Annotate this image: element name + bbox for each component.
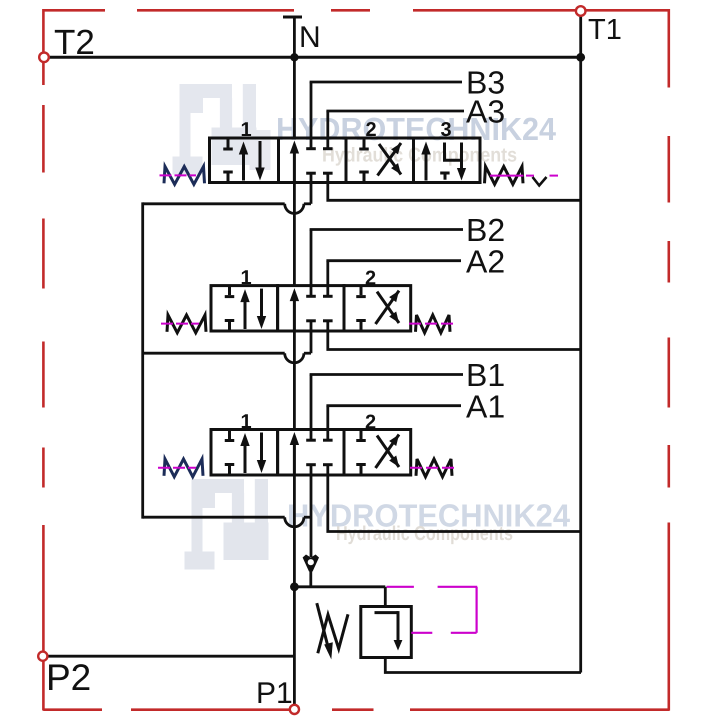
port T2: [39, 53, 49, 63]
valve V2 body (3 boxes): [211, 286, 411, 331]
svg-text:N: N: [299, 21, 321, 54]
valve V1 neutral box through-arrow: [290, 432, 299, 477]
label A1: [466, 388, 505, 424]
watermark text upper: [276, 111, 556, 147]
svg-text:2: 2: [366, 119, 377, 141]
svg-text:P2: P2: [46, 657, 91, 698]
valve V2 position label 2: [365, 267, 376, 289]
valve V1 position label 2: [365, 412, 376, 434]
valve V3 neutral box through-arrow: [290, 141, 299, 185]
svg-text:P1: P1: [256, 677, 293, 710]
svg-text:1: 1: [241, 411, 252, 433]
wire neutral line V2 to V1: [293, 331, 296, 431]
valve V2 right spring: [416, 315, 451, 333]
check valve: [303, 555, 319, 589]
relief valve pilot line (magenta dashed): [387, 587, 478, 633]
wire V1 carryover down: [310, 465, 313, 558]
wire V2 bypass to left rail (with hop): [143, 321, 311, 363]
svg-text:2: 2: [365, 267, 376, 289]
label T1: [588, 14, 622, 46]
wire V3 tank return to trunk: [328, 172, 581, 200]
svg-text:Hydraulic Components: Hydraulic Components: [322, 145, 517, 167]
wire top rail T2-N-T1: [47, 56, 581, 59]
valve V3 box3 internals: [359, 139, 401, 182]
svg-text:HYDROTECHNIK24: HYDROTECHNIK24: [276, 111, 556, 147]
valve V3 right spring: [485, 167, 524, 185]
valve V3 box4 internals: [421, 142, 466, 181]
valve V3 position label 3: [441, 119, 452, 141]
valve V1 left spring: [164, 459, 203, 477]
wire port B2: [310, 230, 463, 296]
valve V3 left spring pilot line: [160, 174, 197, 176]
wire V3 bypass to left rail (with hop): [143, 172, 311, 213]
port P2: [38, 652, 47, 661]
label B1: [466, 357, 505, 393]
valve V3 left spring: [164, 167, 205, 185]
valve V2 right spring pilot line: [409, 323, 457, 325]
valve V3 right pilot line (dashed): [490, 175, 558, 177]
wire V1 tank return to trunk: [328, 465, 581, 532]
valve V1 box3 internals: [356, 431, 399, 475]
svg-text:1: 1: [241, 267, 252, 289]
watermark subtext lower: [336, 523, 513, 545]
node T1 junction: [576, 53, 585, 62]
valve V2 left spring pilot line: [161, 323, 199, 325]
valve V1 box1 internals: [225, 431, 266, 475]
svg-text:1: 1: [241, 119, 252, 141]
port T1: [576, 6, 586, 16]
relief valve outlet to trunk: [385, 658, 581, 673]
valve V2 left spring: [167, 315, 206, 333]
wire P1 riser: [293, 587, 296, 708]
wire neutral line V1 to node P: [293, 475, 296, 588]
label P2: [46, 657, 91, 698]
watermark logo lower: [185, 479, 269, 570]
svg-text:T1: T1: [588, 14, 622, 46]
valve V1 right spring pilot line: [410, 467, 457, 469]
valve V3 body (4 boxes): [210, 138, 481, 183]
relief valve spring and adjust arrow: [317, 603, 348, 659]
node N junction: [290, 53, 298, 61]
svg-text:3: 3: [441, 119, 452, 141]
valve V2 box1 internals: [225, 287, 266, 330]
relief valve flow arrow: [375, 611, 403, 650]
port N cap: [283, 17, 302, 57]
valve V1 right spring: [416, 459, 452, 477]
valve V2 box3 internals: [356, 287, 399, 330]
wire P2 line: [46, 655, 294, 658]
label B3: [466, 65, 505, 101]
label A2: [466, 243, 505, 279]
valve V3 neutral box port bars: [306, 149, 332, 174]
svg-text:2: 2: [365, 412, 376, 434]
label P1: [256, 677, 293, 710]
wire port A3: [326, 111, 464, 148]
valve V1 left spring pilot line: [158, 467, 196, 469]
label B2: [466, 212, 505, 248]
svg-text:T2: T2: [54, 23, 95, 62]
wire T1 trunk: [579, 9, 582, 673]
watermark logo upper: [173, 84, 271, 175]
wire V2 tank return to trunk: [328, 321, 581, 350]
label N: [299, 21, 321, 54]
wire V1 bypass to left rail (with hop): [143, 517, 311, 527]
node P junction: [290, 582, 299, 591]
valve V1 body (3 boxes): [211, 430, 411, 476]
wire port A2: [326, 261, 461, 296]
wire port B3: [310, 82, 462, 148]
svg-text:A3: A3: [466, 94, 505, 130]
svg-text:A2: A2: [466, 243, 505, 279]
valve V1 neutral box port bars: [306, 440, 332, 465]
label T2: [54, 23, 95, 62]
port P1: [290, 705, 299, 714]
valve V3 detent v-mark: [533, 177, 547, 186]
wire neutral line N to valve V3: [293, 57, 296, 139]
valve V2 neutral box through-arrow: [290, 288, 299, 332]
valve V2 neutral box port bars: [306, 296, 332, 321]
svg-text:Hydraulic Components: Hydraulic Components: [336, 523, 513, 545]
watermark text lower: [287, 498, 570, 534]
valve V3 position label 2: [366, 119, 377, 141]
valve V2 position label 1: [241, 267, 252, 289]
wire P junction to relief valve: [294, 587, 385, 608]
label A3: [466, 94, 505, 130]
relief valve body: [361, 607, 412, 658]
valve V3 box1 internals: [223, 139, 264, 182]
wire left rail: [141, 202, 144, 518]
watermark subtext upper: [322, 145, 517, 167]
wire port B1: [310, 375, 463, 440]
wire neutral line V3 to V2: [293, 183, 296, 287]
wire port A1: [326, 406, 461, 440]
svg-text:A1: A1: [466, 388, 505, 424]
valve V3 position label 1: [241, 119, 252, 141]
valve V1 position label 1: [241, 411, 252, 433]
